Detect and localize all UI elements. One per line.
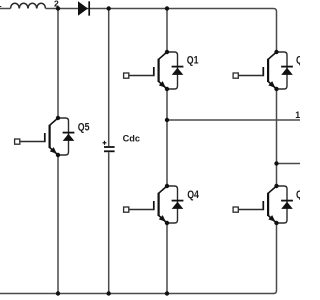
svg-text:Cdc: Cdc [123,134,140,144]
svg-text:Q4: Q4 [187,189,199,201]
svg-text:Q1: Q1 [187,54,199,66]
svg-text:Q2: Q2 [296,189,300,201]
svg-text:Q5: Q5 [78,121,90,133]
svg-text:Q3: Q3 [296,54,300,66]
svg-text:1: 1 [295,110,300,120]
svg-text:2: 2 [54,0,59,9]
svg-text:1: 1 [0,0,2,9]
